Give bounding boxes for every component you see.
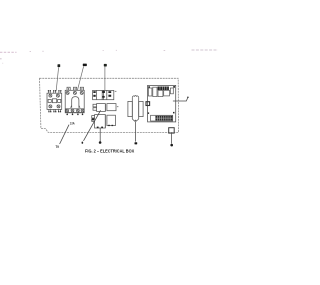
- numeral below relay leader: [99, 141, 102, 144]
- label 2B (third callout): [104, 64, 107, 67]
- capacitor body: [131, 97, 133, 119]
- svg-text:13A: 13A: [70, 122, 75, 126]
- enclosure (electrical box outline): [40, 78, 179, 132]
- leader from capacitor down to numeral: [134, 121, 136, 141]
- label 1B (top left callout): [58, 64, 61, 67]
- capacitor left flange: [128, 101, 132, 116]
- M1 top pins: [48, 90, 60, 93]
- relay block 2B top section: [93, 90, 114, 99]
- PCB left edge socket: [146, 102, 150, 106]
- scan artifact tick left edge: [0, 58, 2, 59]
- numeral below capacitor leader: [135, 142, 138, 144]
- conduit stub bottom right: [169, 128, 175, 133]
- tick right of relay middle: [117, 106, 119, 108]
- M2 bottom terminal strip: [66, 109, 84, 113]
- label 1B (second callout): [83, 64, 87, 67]
- contactor M1: [47, 90, 62, 112]
- M1 bottom pins: [49, 109, 61, 112]
- PCB control board: [148, 85, 176, 122]
- run capacitor C: [128, 95, 143, 121]
- diagonal leader to relay middle: [84, 110, 101, 141]
- contactor M2: [65, 87, 84, 115]
- leader from relay bottom down to numeral: [99, 128, 101, 142]
- leader from T9 to 13A: [60, 125, 69, 144]
- relay bottom screws: [92, 118, 113, 128]
- PCB components top row: [148, 87, 173, 96]
- leader to contactor M1: [56, 67, 58, 90]
- M2 top screws: [66, 91, 69, 94]
- middle left tabs: [93, 104, 97, 107]
- M2 coil arch: [72, 97, 79, 108]
- svg-text:FIG. 2 – ELECTRICAL BOX: FIG. 2 – ELECTRICAL BOX: [85, 148, 134, 153]
- leader to contactor M2: [77, 66, 83, 90]
- tick right of relay top: [115, 90, 117, 92]
- svg-text:T9: T9: [56, 145, 59, 149]
- leader from conduit stub down: [171, 133, 173, 143]
- leader to relay stack: [104, 67, 106, 91]
- M2 bottom pins: [66, 113, 68, 115]
- M2 top brackets: [67, 87, 70, 90]
- M1 middle row elements: [48, 100, 51, 103]
- relay block bottom section: [92, 115, 116, 128]
- relay block middle section: [93, 104, 116, 112]
- bottom left tabs: [92, 116, 95, 118]
- M1 lower screws: [49, 105, 52, 108]
- scan artifact dashed rule top-right: [192, 49, 219, 51]
- M1 top pin heads: [48, 90, 62, 91]
- PCB corner screws: [148, 86, 175, 114]
- relay top section screws: [93, 91, 111, 98]
- scan artifact dashed rule top-left: [0, 51, 17, 53]
- PCB dark header strip: [158, 87, 169, 91]
- leader from PCB right edge: [173, 98, 188, 101]
- numeral below conduit leader: [170, 144, 173, 147]
- capacitor right flange: [139, 101, 143, 116]
- PCB bottom connector: [151, 115, 173, 121]
- scan artifact specks top-center: [30, 50, 166, 52]
- M2 bottom pin heads: [67, 114, 84, 115]
- M1 upper screws: [49, 94, 52, 97]
